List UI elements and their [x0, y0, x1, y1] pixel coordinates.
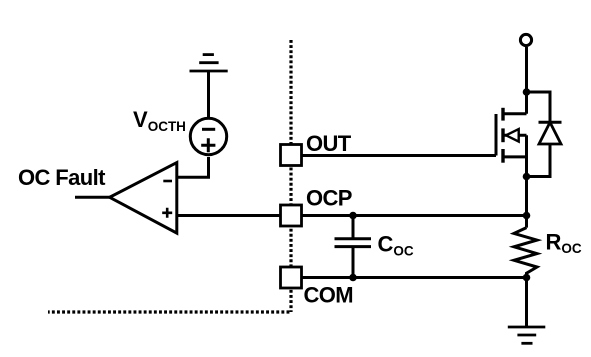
drain lead — [503, 112, 527, 115]
svg-text:OCP: OCP — [306, 185, 352, 210]
wire OCP to mosfet — [302, 214, 527, 217]
pin pad COM — [281, 267, 302, 288]
terminal circle (drain) — [520, 34, 531, 45]
wire inverting input to source — [177, 157, 209, 177]
op-amp plus sign — [162, 208, 172, 218]
wire COM to ground — [525, 278, 528, 328]
source plus sign — [201, 138, 215, 152]
gate bar — [495, 114, 498, 156]
node OCP junction — [523, 212, 531, 220]
wire body/source down — [525, 135, 528, 227]
body lead — [505, 134, 527, 137]
pin pad OCP — [281, 205, 302, 226]
pin pad OUT — [281, 145, 302, 166]
node COM-cap junction — [349, 274, 357, 282]
dashed IC boundary horizontal — [48, 310, 289, 313]
svg-text:OUT: OUT — [306, 131, 352, 156]
source lead — [503, 155, 527, 158]
transistor Q1 (NMOS) — [496, 108, 527, 163]
capacitor COC — [335, 216, 372, 278]
wire opamp output — [75, 196, 110, 199]
channel segment top — [501, 108, 504, 121]
ground (bottom) — [508, 327, 546, 343]
wire noninverting input — [177, 214, 280, 217]
node COM junction — [523, 274, 531, 282]
node source junction — [523, 173, 531, 181]
resistor ROC — [514, 228, 537, 278]
body arrow — [506, 129, 519, 142]
voltage source VOCTH — [190, 118, 226, 154]
wire source to ground — [207, 71, 210, 118]
wire COM rail — [302, 276, 527, 279]
wire OUT to gate — [302, 154, 496, 157]
channel segment middle — [501, 128, 504, 142]
ground (top, inverted) — [190, 55, 228, 71]
wire terminal to drain — [525, 47, 528, 114]
source minus sign — [202, 128, 215, 131]
op-amp U1 — [110, 163, 177, 234]
svg-text:COM: COM — [304, 283, 354, 308]
node OCP-cap junction — [349, 212, 357, 220]
svg-text:OC Fault: OC Fault — [18, 165, 106, 190]
node drain junction — [523, 88, 531, 96]
body diode D1 — [527, 92, 562, 177]
dashed IC boundary vertical — [289, 40, 292, 312]
op-amp minus sign — [163, 180, 172, 183]
channel segment bottom — [501, 149, 504, 163]
